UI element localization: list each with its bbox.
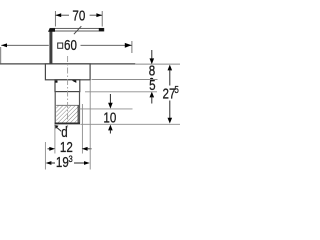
svg-text:5: 5 bbox=[149, 77, 155, 94]
svg-text:70: 70 bbox=[72, 7, 85, 24]
svg-text:19: 19 bbox=[56, 154, 69, 171]
svg-text:5: 5 bbox=[174, 84, 178, 95]
svg-text:d: d bbox=[61, 124, 67, 141]
svg-text:10: 10 bbox=[103, 109, 116, 126]
svg-text:3: 3 bbox=[69, 153, 73, 164]
svg-text:60: 60 bbox=[64, 37, 77, 54]
svg-text:27: 27 bbox=[163, 85, 176, 102]
